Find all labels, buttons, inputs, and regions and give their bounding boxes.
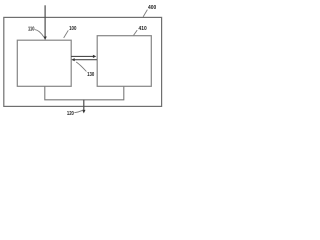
input arrow 110 (vertical wire into block 100) [43,5,46,40]
svg-text:120: 120 [67,111,74,117]
svg-text:410: 410 [139,26,147,32]
output arrow 120 (vertical wire leaving enclosure) [82,100,85,114]
leader line for 100 [64,30,69,38]
bidirectional link 130: left-pointing wire [71,58,97,61]
svg-text:100: 100 [69,26,76,32]
svg-text:130: 130 [87,72,94,78]
leader line for 400 [143,10,147,17]
bus wire from block 100 bottom to block 410 bottom [45,86,124,100]
bidirectional link 130: right-pointing wire [71,55,96,58]
leader line for 120 [74,110,83,113]
outer enclosure box 400 [4,17,162,106]
svg-text:110: 110 [28,27,34,33]
block 100 (left box) [17,40,71,86]
leader line for 130 [76,62,86,72]
leader line for 410 [134,30,138,35]
svg-text:400: 400 [148,5,156,11]
block 410 (right box) [97,36,151,87]
leader line for 110 [35,30,44,38]
